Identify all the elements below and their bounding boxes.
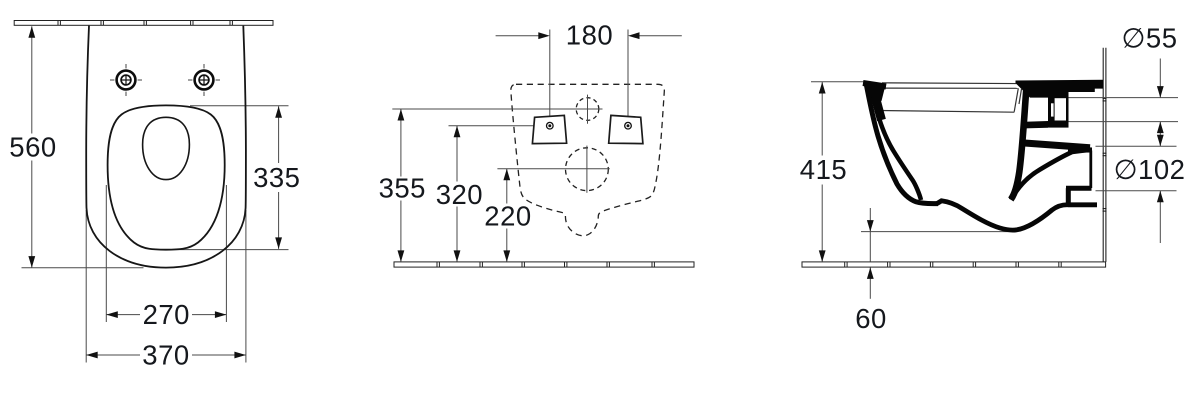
svg-text:335: 335 xyxy=(253,162,300,193)
svg-text:355: 355 xyxy=(379,173,426,204)
svg-text:∅102: ∅102 xyxy=(1114,154,1186,185)
svg-text:60: 60 xyxy=(855,303,887,334)
svg-text:220: 220 xyxy=(484,201,531,232)
svg-text:270: 270 xyxy=(143,299,190,330)
svg-text:415: 415 xyxy=(800,154,847,185)
svg-text:320: 320 xyxy=(436,179,483,210)
svg-text:370: 370 xyxy=(142,339,189,370)
svg-text:180: 180 xyxy=(566,19,613,50)
svg-text:560: 560 xyxy=(9,132,56,163)
svg-text:∅55: ∅55 xyxy=(1121,23,1177,54)
